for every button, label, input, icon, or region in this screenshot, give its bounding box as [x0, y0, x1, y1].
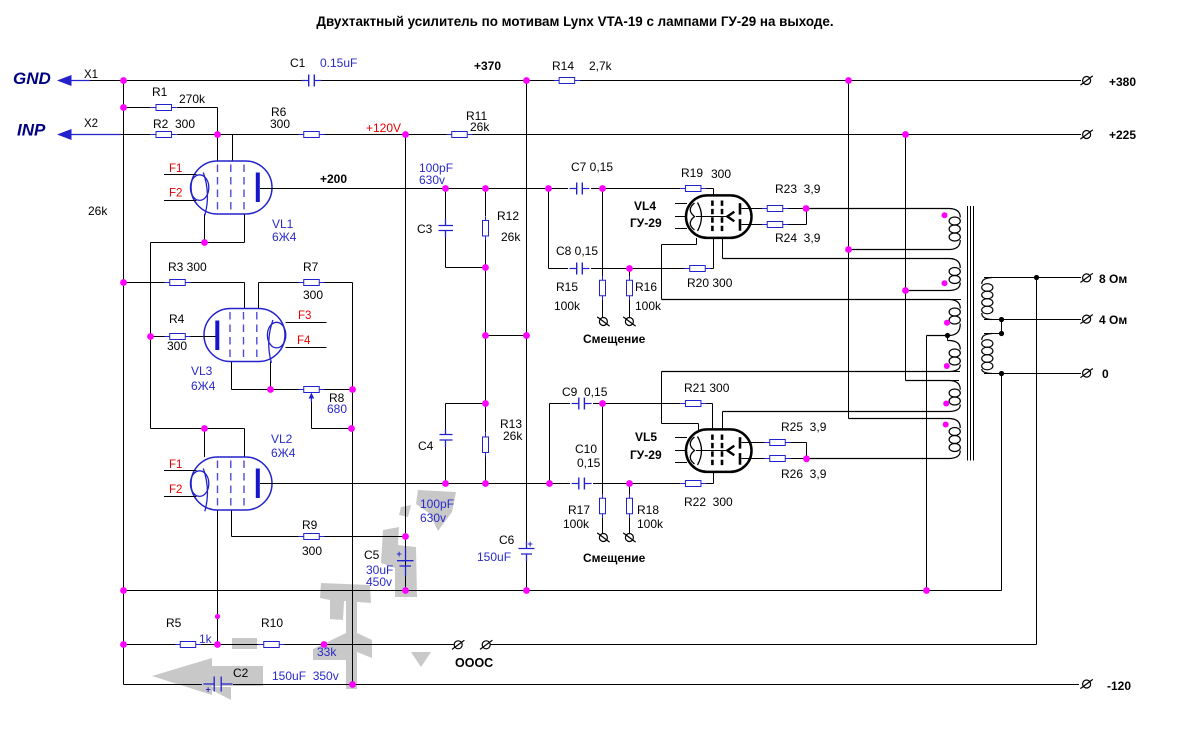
svg-text:R25 3,9: R25 3,9 [781, 420, 827, 434]
svg-text:+: + [528, 539, 533, 549]
svg-text:300: 300 [270, 117, 290, 131]
svg-text:R18: R18 [637, 503, 659, 517]
svg-text:300: 300 [167, 339, 187, 353]
svg-text:+225: +225 [1109, 128, 1136, 142]
svg-text:ГУ-29: ГУ-29 [630, 216, 662, 230]
svg-text:R24 3,9: R24 3,9 [775, 231, 821, 245]
svg-text:C6: C6 [499, 533, 515, 547]
svg-text:0: 0 [1102, 367, 1109, 381]
svg-text:8 Ом: 8 Ом [1099, 272, 1127, 286]
svg-text:100k: 100k [635, 299, 662, 313]
svg-text:F2: F2 [169, 188, 182, 200]
svg-text:150uF: 150uF [477, 550, 511, 564]
svg-text:C10: C10 [575, 442, 597, 456]
svg-text:ОООС: ОООС [455, 656, 493, 670]
svg-text:C8 0,15: C8 0,15 [556, 244, 598, 258]
svg-text:1k: 1k [199, 632, 213, 646]
svg-text:R10: R10 [261, 616, 283, 630]
svg-text:270k: 270k [179, 92, 206, 106]
svg-text:R19: R19 [681, 166, 703, 180]
svg-text:+: + [206, 685, 211, 695]
svg-text:26k: 26k [503, 429, 523, 443]
svg-text:+370: +370 [474, 59, 501, 73]
svg-text:INP: INP [17, 121, 46, 140]
svg-text:26k: 26k [501, 230, 521, 244]
svg-text:C5: C5 [364, 548, 380, 562]
svg-text:6Ж4: 6Ж4 [271, 446, 296, 460]
svg-text:C1: C1 [290, 56, 306, 70]
svg-text:300: 300 [303, 288, 323, 302]
svg-text:-120: -120 [1107, 679, 1131, 693]
svg-text:C7 0,15: C7 0,15 [571, 160, 613, 174]
svg-text:VL1: VL1 [272, 217, 294, 231]
svg-text:300: 300 [711, 167, 731, 181]
svg-text:6Ж4: 6Ж4 [272, 230, 297, 244]
svg-text:F1: F1 [169, 163, 182, 175]
svg-text:300: 300 [302, 544, 322, 558]
svg-text:630v: 630v [420, 511, 446, 525]
svg-text:VL2: VL2 [271, 432, 293, 446]
svg-text:+: + [397, 549, 402, 559]
svg-text:R5: R5 [166, 616, 182, 630]
svg-text:R14: R14 [552, 59, 574, 73]
svg-text:26k: 26k [470, 120, 490, 134]
svg-text:R12: R12 [497, 209, 519, 223]
svg-text:R22 300: R22 300 [684, 495, 733, 509]
svg-text:100k: 100k [637, 517, 664, 531]
svg-text:+200: +200 [320, 172, 347, 186]
svg-text:630v: 630v [419, 173, 445, 187]
svg-text:R15: R15 [556, 280, 578, 294]
svg-text:C9 0,15: C9 0,15 [562, 385, 608, 399]
svg-text:R17: R17 [568, 503, 590, 517]
svg-text:R26 3,9: R26 3,9 [781, 467, 827, 481]
svg-text:+120V: +120V [366, 121, 401, 135]
svg-text:R3 300: R3 300 [168, 260, 207, 274]
svg-text:R20 300: R20 300 [687, 276, 733, 290]
svg-text:R21 300: R21 300 [684, 381, 730, 395]
svg-text:R16: R16 [635, 280, 657, 294]
svg-text:R4: R4 [169, 312, 185, 326]
svg-text:33k: 33k [317, 645, 337, 659]
svg-text:0,15: 0,15 [577, 456, 601, 470]
svg-text:R7: R7 [303, 260, 319, 274]
svg-text:X1: X1 [84, 69, 98, 81]
svg-text:F2: F2 [169, 484, 182, 496]
svg-text:Двухтактный усилитель по мотив: Двухтактный усилитель по мотивам Lynx VT… [316, 14, 833, 29]
svg-text:F3: F3 [298, 310, 311, 322]
svg-text:450v: 450v [366, 575, 392, 589]
svg-text:C3: C3 [417, 222, 433, 236]
svg-text:F1: F1 [169, 459, 182, 471]
svg-text:4 Ом: 4 Ом [1099, 313, 1127, 327]
svg-text:Смещение: Смещение [583, 551, 646, 565]
svg-text:680: 680 [327, 402, 347, 416]
svg-text:100k: 100k [563, 517, 590, 531]
svg-text:26k: 26k [88, 204, 108, 218]
svg-text:R23 3,9: R23 3,9 [775, 182, 821, 196]
svg-text:GND: GND [13, 69, 51, 88]
svg-text:+380: +380 [1109, 75, 1136, 89]
svg-text:R9: R9 [302, 518, 318, 532]
svg-text:VL4: VL4 [634, 199, 656, 213]
svg-text:C4: C4 [418, 439, 434, 453]
svg-text:R2 300: R2 300 [153, 117, 195, 131]
svg-text:R1: R1 [152, 85, 168, 99]
svg-text:100k: 100k [554, 299, 581, 313]
svg-text:2,7k: 2,7k [589, 59, 613, 73]
svg-text:VL5: VL5 [635, 430, 657, 444]
svg-text:0.15uF: 0.15uF [320, 56, 357, 70]
svg-text:6Ж4: 6Ж4 [191, 379, 216, 393]
svg-text:Смещение: Смещение [583, 332, 646, 346]
svg-text:150uF 350v: 150uF 350v [272, 669, 339, 683]
svg-text:F4: F4 [297, 335, 311, 347]
svg-text:X2: X2 [84, 118, 98, 130]
svg-text:VL3: VL3 [191, 364, 213, 378]
svg-text:100pF: 100pF [420, 497, 454, 511]
svg-text:C2: C2 [233, 666, 249, 680]
svg-text:ГУ-29: ГУ-29 [630, 448, 662, 462]
